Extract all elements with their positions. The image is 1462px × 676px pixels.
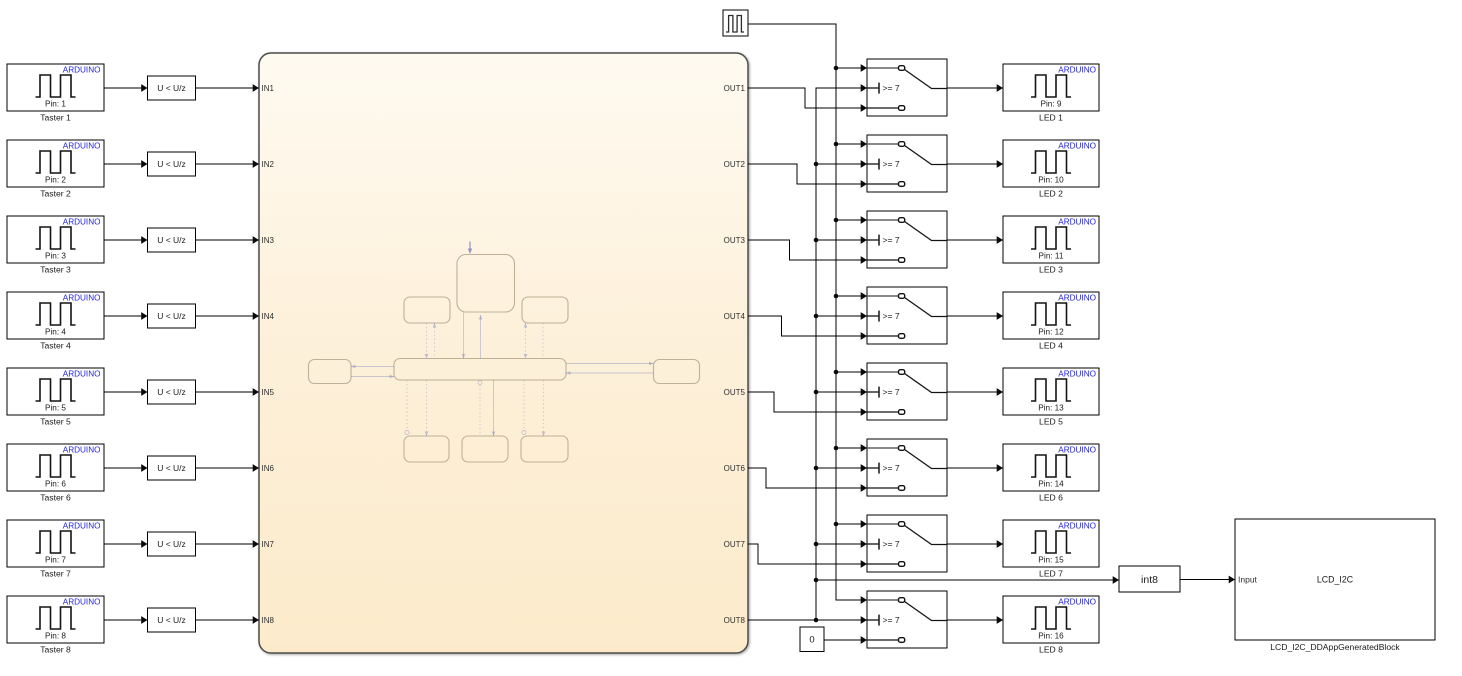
junction dot OUT8 trunk row 7 <box>814 542 819 547</box>
junction dot OUT8 trunk bottom <box>814 618 819 623</box>
wire Taster 6 output to compare block 6 <box>104 467 148 469</box>
svg-text:Taster 8: Taster 8 <box>40 645 71 655</box>
svg-text:U < U/z: U < U/z <box>157 159 186 169</box>
chart preview transitions: bar to bottom-right state (dotted) <box>522 380 545 436</box>
junction dot pulse trunk row 4 <box>834 294 839 299</box>
junction dot OUT8 trunk row 4 <box>814 314 819 319</box>
subsystem block LCD_I2C_DDAppGeneratedBlock <box>1235 519 1435 652</box>
wire switch 5 output to LED 5 <box>947 391 1003 393</box>
svg-text:U < U/z: U < U/z <box>157 463 186 473</box>
source block Taster 5 (Arduino Digital Input, Pin 5) <box>7 368 104 427</box>
svg-text:IN8: IN8 <box>262 616 275 625</box>
svg-text:IN1: IN1 <box>262 84 275 93</box>
junction dot OUT8 trunk to LCD branch <box>814 578 819 583</box>
compare block U &lt; U/z #3 <box>148 228 196 252</box>
wire branch pulse trunk to switch 3 top input <box>836 219 867 221</box>
compare block U &lt; U/z #1 <box>148 76 196 100</box>
wire compare block 4 to chart port IN4 <box>196 315 260 317</box>
svg-text:LED 5: LED 5 <box>1039 417 1063 427</box>
wire branch OUT8 trunk to switch 5 control input <box>816 391 867 393</box>
wire switch 8 output to LED 8 <box>947 619 1003 621</box>
svg-text:ARDUINO: ARDUINO <box>1058 66 1096 75</box>
chart preview: upper-left state <box>404 297 450 323</box>
junction dot OUT8 trunk row 2 <box>814 162 819 167</box>
svg-text:Pin: 3: Pin: 3 <box>45 252 66 261</box>
wire pulse generator to switch top-input bus (vertical trunk) <box>748 24 867 600</box>
switch block Switch 6 (criteria >= 7) <box>867 439 947 496</box>
svg-text:ARDUINO: ARDUINO <box>1058 294 1096 303</box>
constant block 0 <box>800 627 824 652</box>
source block Taster 6 (Arduino Digital Input, Pin 6) <box>7 444 104 503</box>
svg-text:LED 4: LED 4 <box>1039 341 1063 351</box>
switch block Switch 8 (criteria >= 7) <box>867 591 947 648</box>
switch block Switch 5 (criteria >= 7) <box>867 363 947 420</box>
svg-text:ARDUINO: ARDUINO <box>63 522 101 531</box>
wire switch 2 output to LED 2 <box>947 163 1003 165</box>
wire chart OUT7 to switch 7 bottom data input <box>748 544 867 564</box>
chart preview: upper-right state <box>522 297 568 323</box>
wire branch OUT8 trunk to switch 7 control input <box>816 543 867 545</box>
compare block U &lt; U/z #7 <box>148 532 196 556</box>
wire chart OUT8 to switch 8 control input <box>748 619 867 621</box>
svg-text:Pin: 15: Pin: 15 <box>1038 556 1064 565</box>
wire chart OUT1 to switch 1 bottom data input <box>748 88 867 108</box>
compare block U &lt; U/z #5 <box>148 380 196 404</box>
svg-text:Pin: 5: Pin: 5 <box>45 404 66 413</box>
sink block LED 3 (Arduino Digital Output, Pin 11) <box>1003 216 1099 275</box>
chart preview transitions: upper-left state to bar (dotted) <box>425 323 437 359</box>
svg-text:LED 1: LED 1 <box>1039 113 1063 123</box>
chart preview: default transition <box>468 242 472 255</box>
chart preview transitions: bar to bottom-middle state <box>478 380 495 436</box>
svg-text:LED 6: LED 6 <box>1039 493 1063 503</box>
wire chart OUT3 to switch 3 bottom data input <box>748 240 867 260</box>
svg-text:Pin: 7: Pin: 7 <box>45 556 66 565</box>
junction dot pulse trunk row 7 <box>834 522 839 527</box>
svg-text:ARDUINO: ARDUINO <box>63 294 101 303</box>
svg-text:ARDUINO: ARDUINO <box>1058 522 1096 531</box>
svg-text:U < U/z: U < U/z <box>157 615 186 625</box>
wire branch pulse trunk to switch 5 top input <box>836 371 867 373</box>
sink block LED 4 (Arduino Digital Output, Pin 12) <box>1003 292 1099 351</box>
compare block U &lt; U/z #4 <box>148 304 196 328</box>
svg-text:Pin: 1: Pin: 1 <box>45 100 66 109</box>
svg-text:Pin: 10: Pin: 10 <box>1038 176 1064 185</box>
svg-text:OUT2: OUT2 <box>724 160 746 169</box>
compare block U &lt; U/z #6 <box>148 456 196 480</box>
wire branch OUT8 trunk to switch 6 control input <box>816 467 867 469</box>
source block Taster 7 (Arduino Digital Input, Pin 7) <box>7 520 104 579</box>
wire switch 7 output to LED 7 <box>947 543 1003 545</box>
svg-text:Pin: 8: Pin: 8 <box>45 632 66 641</box>
chart preview transitions: upper-right state to bar (dotted) <box>524 323 543 359</box>
svg-text:Pin: 14: Pin: 14 <box>1038 480 1064 489</box>
svg-text:Taster 4: Taster 4 <box>40 341 71 351</box>
compare block U &lt; U/z #2 <box>148 152 196 176</box>
chart preview transitions: bar top arrows <box>462 323 528 359</box>
svg-text:ARDUINO: ARDUINO <box>1058 446 1096 455</box>
svg-text:ARDUINO: ARDUINO <box>63 218 101 227</box>
chart block Chart (Stateflow) <box>259 53 748 653</box>
svg-text:Pin: 2: Pin: 2 <box>45 176 66 185</box>
sink block LED 7 (Arduino Digital Output, Pin 15) <box>1003 520 1099 579</box>
svg-text:U < U/z: U < U/z <box>157 539 186 549</box>
svg-text:Pin: 9: Pin: 9 <box>1041 100 1062 109</box>
svg-text:ARDUINO: ARDUINO <box>63 66 101 75</box>
wire branch pulse trunk to switch 2 top input <box>836 143 867 145</box>
svg-text:IN5: IN5 <box>262 388 275 397</box>
svg-text:OUT8: OUT8 <box>724 616 746 625</box>
svg-text:IN4: IN4 <box>262 312 275 321</box>
wire switch 4 output to LED 4 <box>947 315 1003 317</box>
svg-text:OUT1: OUT1 <box>724 84 746 93</box>
wire switch 1 output to LED 1 <box>947 87 1003 89</box>
svg-text:IN7: IN7 <box>262 540 275 549</box>
svg-text:LED 3: LED 3 <box>1039 265 1063 275</box>
svg-text:Taster 7: Taster 7 <box>40 569 71 579</box>
svg-text:ARDUINO: ARDUINO <box>1058 370 1096 379</box>
pulse generator block <box>723 10 748 36</box>
switch block Switch 1 (criteria >= 7) <box>867 59 947 116</box>
svg-text:ARDUINO: ARDUINO <box>1058 218 1096 227</box>
wire constant 0 to switch 8 bottom data input <box>824 639 867 641</box>
svg-text:Pin: 4: Pin: 4 <box>45 328 66 337</box>
svg-text:Taster 1: Taster 1 <box>40 113 71 123</box>
source block Taster 8 (Arduino Digital Input, Pin 8) <box>7 596 104 655</box>
svg-text:OUT5: OUT5 <box>724 388 746 397</box>
wire branch pulse trunk to switch 4 top input <box>836 295 867 297</box>
wire Taster 5 output to compare block 5 <box>104 391 148 393</box>
wire compare block 3 to chart port IN3 <box>196 239 260 241</box>
source block Taster 3 (Arduino Digital Input, Pin 3) <box>7 216 104 275</box>
compare block U &lt; U/z #8 <box>148 608 196 632</box>
svg-text:Taster 2: Taster 2 <box>40 189 71 199</box>
svg-text:0: 0 <box>809 635 814 646</box>
switch block Switch 2 (criteria >= 7) <box>867 135 947 192</box>
svg-text:ARDUINO: ARDUINO <box>63 446 101 455</box>
svg-text:LED 7: LED 7 <box>1039 569 1063 579</box>
wire Taster 3 output to compare block 3 <box>104 239 148 241</box>
sink block LED 6 (Arduino Digital Output, Pin 14) <box>1003 444 1099 503</box>
svg-text:Pin: 6: Pin: 6 <box>45 480 66 489</box>
svg-text:Pin: 13: Pin: 13 <box>1038 404 1064 413</box>
svg-text:Pin: 16: Pin: 16 <box>1038 632 1064 641</box>
svg-text:LCD_I2C_DDAppGeneratedBlock: LCD_I2C_DDAppGeneratedBlock <box>1270 642 1400 652</box>
junction dot pulse trunk row 1 <box>834 66 839 71</box>
chart preview: central bar state <box>394 359 566 381</box>
switch block Switch 3 (criteria >= 7) <box>867 211 947 268</box>
wire compare block 5 to chart port IN5 <box>196 391 260 393</box>
chart preview: bottom-middle state <box>462 436 508 462</box>
wire compare block 6 to chart port IN6 <box>196 467 260 469</box>
junction dot pulse trunk row 6 <box>834 446 839 451</box>
svg-text:LED 2: LED 2 <box>1039 189 1063 199</box>
svg-text:ARDUINO: ARDUINO <box>1058 142 1096 151</box>
svg-text:Taster 5: Taster 5 <box>40 417 71 427</box>
junction dot pulse trunk row 3 <box>834 218 839 223</box>
svg-text:ARDUINO: ARDUINO <box>63 370 101 379</box>
sink block LED 8 (Arduino Digital Output, Pin 16) <box>1003 596 1099 655</box>
svg-text:LED 8: LED 8 <box>1039 645 1063 655</box>
data type conversion block int8 <box>1119 566 1180 592</box>
junction dot OUT8 trunk row 3 <box>814 238 819 243</box>
svg-text:LCD_I2C: LCD_I2C <box>1317 575 1354 585</box>
chart preview: left state <box>309 360 352 384</box>
junction dot pulse trunk row 2 <box>834 142 839 147</box>
wire Taster 4 output to compare block 4 <box>104 315 148 317</box>
svg-text:Pin: 11: Pin: 11 <box>1039 252 1064 261</box>
source block Taster 1 (Arduino Digital Input, Pin 1) <box>7 64 104 123</box>
chart preview: top state <box>457 255 515 313</box>
svg-text:IN2: IN2 <box>262 160 275 169</box>
junction dot OUT8 trunk row 6 <box>814 466 819 471</box>
svg-text:Input: Input <box>1238 575 1258 585</box>
sink block LED 2 (Arduino Digital Output, Pin 10) <box>1003 140 1099 199</box>
wire branch OUT8 trunk to switch 2 control input <box>816 163 867 165</box>
svg-text:IN6: IN6 <box>262 464 275 473</box>
svg-text:OUT7: OUT7 <box>724 540 746 549</box>
wire branch pulse trunk to switch 6 top input <box>836 447 867 449</box>
wire Taster 8 output to compare block 8 <box>104 619 148 621</box>
svg-text:U < U/z: U < U/z <box>157 387 186 397</box>
wire Taster 1 output to compare block 1 <box>104 87 148 89</box>
svg-text:U < U/z: U < U/z <box>157 83 186 93</box>
wire chart OUT2 to switch 2 bottom data input <box>748 164 867 184</box>
wire branch pulse trunk to switch 1 top input <box>836 67 867 69</box>
svg-text:U < U/z: U < U/z <box>157 235 186 245</box>
svg-text:Taster 3: Taster 3 <box>40 265 71 275</box>
wire switch 6 output to LED 6 <box>947 467 1003 469</box>
svg-text:OUT4: OUT4 <box>724 312 746 321</box>
svg-text:ARDUINO: ARDUINO <box>63 142 101 151</box>
wire switch 3 output to LED 3 <box>947 239 1003 241</box>
wire compare block 2 to chart port IN2 <box>196 163 260 165</box>
svg-text:IN3: IN3 <box>262 236 275 245</box>
svg-text:int8: int8 <box>1141 574 1158 586</box>
svg-text:OUT6: OUT6 <box>724 464 746 473</box>
chart preview: right state <box>654 360 700 384</box>
svg-text:Taster 6: Taster 6 <box>40 493 71 503</box>
wire branch OUT8 trunk to switch 3 control input <box>816 239 867 241</box>
wire compare block 7 to chart port IN7 <box>196 543 260 545</box>
chart preview transitions: bar to bottom-left state (dotted) <box>405 380 428 436</box>
switch block Switch 4 (criteria >= 7) <box>867 287 947 344</box>
wire branch pulse trunk to switch 7 top input <box>836 523 867 525</box>
chart preview transitions: top state to bar <box>464 312 483 359</box>
chart preview: bottom-left state <box>404 436 449 462</box>
switch block Switch 7 (criteria >= 7) <box>867 515 947 572</box>
wire Taster 2 output to compare block 2 <box>104 163 148 165</box>
wire branch OUT8 trunk to switch 4 control input <box>816 315 867 317</box>
svg-text:Pin: 12: Pin: 12 <box>1038 328 1064 337</box>
wire int8 conversion to LCD_I2C Input <box>1180 579 1235 581</box>
wire compare block 8 to chart port IN8 <box>196 619 260 621</box>
chart preview transitions: bar to right state <box>566 362 654 375</box>
wire chart OUT4 to switch 4 bottom data input <box>748 316 867 336</box>
sink block LED 5 (Arduino Digital Output, Pin 13) <box>1003 368 1099 427</box>
wire chart OUT6 to switch 6 bottom data input <box>748 468 867 488</box>
wire compare block 1 to chart port IN1 <box>196 87 260 89</box>
svg-text:ARDUINO: ARDUINO <box>1058 598 1096 607</box>
wire branch OUT8 trunk to int8 conversion <box>816 579 1119 581</box>
wire OUT8 control trunk (vertical) to switch 1 control input <box>816 88 867 620</box>
wire chart OUT5 to switch 5 bottom data input <box>748 392 867 412</box>
svg-text:U < U/z: U < U/z <box>157 311 186 321</box>
sink block LED 1 (Arduino Digital Output, Pin 9) <box>1003 64 1099 123</box>
wire Taster 7 output to compare block 7 <box>104 543 148 545</box>
junction dot pulse trunk row 5 <box>834 370 839 375</box>
source block Taster 4 (Arduino Digital Input, Pin 4) <box>7 292 104 351</box>
svg-text:OUT3: OUT3 <box>724 236 746 245</box>
chart preview: bottom-right state <box>521 436 568 462</box>
source block Taster 2 (Arduino Digital Input, Pin 2) <box>7 140 104 199</box>
svg-text:ARDUINO: ARDUINO <box>63 598 101 607</box>
chart preview transitions: bar to left state <box>351 365 394 379</box>
junction dot OUT8 trunk row 5 <box>814 390 819 395</box>
